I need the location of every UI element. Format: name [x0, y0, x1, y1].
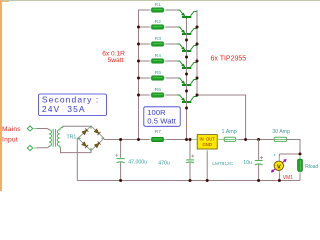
junction C3 top on output node: [257, 138, 260, 141]
svg-text:0.5 Watt: 0.5 Watt: [147, 117, 177, 126]
svg-text:100R: 100R: [147, 108, 166, 117]
wire collector bus (output of pass transistors): [197, 10, 246, 140]
wire C2 branch: [189, 141, 191, 159]
junction C2 top on U1 IN node: [189, 138, 192, 141]
junction Rload branch tap: [299, 153, 302, 156]
junction collector bus row 2: [196, 26, 199, 29]
svg-text:LM7812C: LM7812C: [212, 161, 233, 167]
svg-text:V: V: [277, 164, 281, 170]
junction C3 bottom on 0V bus: [257, 179, 260, 182]
junction input rail row 2: [137, 26, 140, 29]
junction base bus Q2: [185, 39, 188, 42]
wire F2 to Rload: [287, 140, 300, 155]
wire F1 to output node: [236, 139, 239, 141]
wire TR1 secondary top to bridge AC top: [63, 126, 91, 128]
transistor Q3 TIP2955: [178, 44, 198, 55]
voltmeter VM1: [278, 157, 280, 162]
junction collector bus row 4: [196, 60, 199, 63]
svg-text:R7: R7: [155, 129, 162, 135]
svg-text:Rload: Rload: [305, 164, 318, 170]
resistor R7 100R: [149, 139, 166, 141]
junction VM1 on 0V bus: [278, 179, 281, 182]
wire mains neutral to TR1 primary bottom: [33, 147, 37, 149]
node Mains neutral terminal: [27, 145, 32, 150]
svg-text:R1: R1: [155, 2, 162, 8]
wire 0V ground bus: [77, 180, 300, 182]
wire VM1 bottom to 0V bus: [278, 171, 280, 180]
resistor Rload: [299, 155, 301, 175]
diode D3 (left corner to AC bottom): [82, 142, 88, 148]
junction collector bus row 6: [196, 94, 199, 97]
svg-text:10u: 10u: [243, 160, 252, 166]
svg-text:Mains: Mains: [2, 126, 21, 133]
svg-text:VM1: VM1: [283, 175, 294, 181]
wire TR1 secondary bottom to bridge AC bottom: [61, 149, 92, 153]
label 100R 0.5 Watt annotation box: [144, 107, 180, 127]
wire R4 to Q4 emitter: [166, 60, 178, 62]
junction C1 bottom on 0V bus: [119, 179, 122, 182]
wire input rail (raw DC up to ballast resistors): [139, 10, 152, 140]
wire DC positive node: bridge output to U1 IN: [104, 139, 149, 141]
resistor R5 0.1R: [149, 77, 166, 79]
svg-text:TR1: TR1: [67, 134, 77, 140]
svg-text:30 Amp: 30 Amp: [272, 129, 290, 135]
op-amp U1 LM7812C regulator: [197, 135, 217, 149]
junction U1 GND on 0V bus: [206, 179, 209, 182]
resistor R4 0.1R: [149, 60, 166, 62]
transistor Q2 TIP2955: [178, 27, 198, 38]
junction base bus Q4: [185, 73, 188, 76]
junction input rail row 5: [137, 77, 140, 80]
wire R2 to Q2 emitter: [166, 26, 178, 28]
junction C1 top on DC node: [119, 138, 122, 141]
wire R5 to Q5 emitter: [166, 77, 178, 79]
svg-text:5watt: 5watt: [108, 57, 124, 64]
junction base bus Q3: [185, 56, 188, 59]
svg-text:1 Amp: 1 Amp: [222, 129, 237, 135]
diode D4 (AC bottom to + right corner): [94, 141, 100, 147]
wire R3 to Q3 emitter: [166, 43, 178, 45]
junction collector bus row 3: [196, 43, 199, 46]
transistor Q5 TIP2955: [178, 78, 198, 89]
svg-text:6x TIP2955: 6x TIP2955: [211, 55, 247, 62]
resistor R1 0.1R: [149, 9, 166, 11]
wire bridge negative corner down to 0V bus: [76, 138, 79, 180]
transistor Q4 TIP2955: [178, 61, 198, 72]
wire output node to VM1 top: [279, 153, 300, 155]
resistor R6 0.1R: [149, 94, 166, 96]
junction collector bus joins output node: [244, 138, 247, 141]
svg-text:R4: R4: [155, 53, 162, 59]
fuse F1 1 Amp: [224, 137, 235, 141]
junction C2 bottom on 0V bus: [189, 179, 192, 182]
wire base bus down to 100R node: [186, 19, 188, 140]
junction base bus Q6: [185, 107, 188, 110]
wire Rload to 0V bus: [299, 174, 301, 181]
svg-text:R2: R2: [155, 19, 162, 25]
wire U1 GND pin to 0V bus: [206, 149, 208, 152]
junction input rail row 4: [137, 60, 140, 63]
junction input rail row 6: [137, 94, 140, 97]
capacitor C1 47,000u: [117, 159, 125, 163]
svg-text:IN OUT: IN OUT: [200, 136, 216, 141]
junction collector bus row 5: [196, 77, 199, 80]
junction input rail on DC node: [137, 138, 140, 141]
junction base bus Q5: [185, 90, 188, 93]
bridge rectifier BR1 outline: [78, 126, 104, 151]
wire U1 OUT to fuse F1: [217, 139, 225, 141]
label Secondary 24V 35A annotation box: [39, 94, 107, 116]
svg-text:R3: R3: [155, 36, 162, 42]
transformer TR1: [49, 127, 63, 149]
svg-text:R6: R6: [155, 87, 162, 93]
wire C1 branch: [120, 140, 122, 158]
transistor Q1 TIP2955: [178, 10, 198, 21]
capacitor C3 10u: [255, 161, 263, 165]
svg-text:470u: 470u: [158, 160, 170, 166]
diode D2 (AC top to + right corner): [94, 129, 100, 135]
wire C3 branch: [258, 140, 260, 160]
resistor R3 0.1R: [149, 43, 166, 45]
junction input rail row 3: [137, 43, 140, 46]
svg-text:47,000u: 47,000u: [128, 160, 147, 166]
junction base bus on U1 IN node: [185, 138, 188, 141]
svg-text:GND: GND: [203, 142, 212, 147]
wire R6 to Q6 emitter: [166, 94, 178, 96]
transistor Q6 TIP2955: [178, 95, 198, 106]
svg-text:R5: R5: [155, 70, 162, 76]
wire R1 to Q1 emitter: [166, 9, 178, 11]
svg-text:24V 35A: 24V 35A: [42, 104, 86, 114]
fuse F2 30 Amp: [274, 137, 286, 141]
node Mains live terminal: [27, 126, 32, 131]
svg-text:Input: Input: [2, 137, 18, 144]
resistor R2 0.1R: [149, 26, 166, 28]
capacitor C2 470u: [186, 160, 194, 163]
diode D1 (left corner to AC top): [82, 128, 88, 134]
wire mains live to TR1 primary top: [33, 128, 37, 130]
